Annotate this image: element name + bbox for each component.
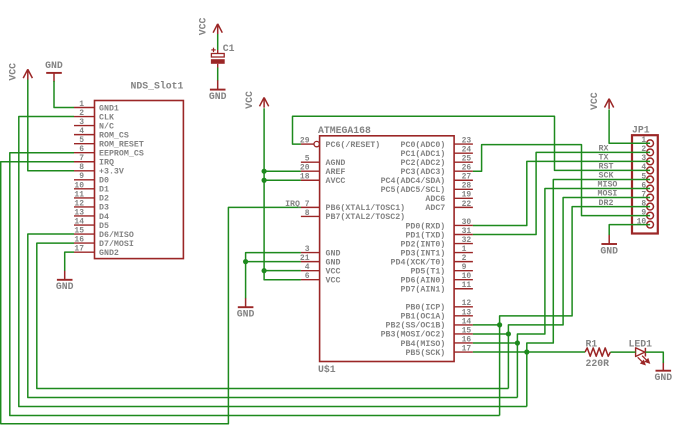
JP1 pin 3 pad bbox=[647, 158, 654, 165]
ATMEGA168 pin 21 GND bbox=[301, 261, 320, 263]
svg-text:PC5(ADC5/SCL): PC5(ADC5/SCL) bbox=[381, 185, 446, 195]
svg-text:12: 12 bbox=[462, 299, 472, 308]
svg-text:21: 21 bbox=[300, 254, 310, 263]
wire GND column to ATMEGA GND pins 3 21 bbox=[246, 253, 301, 299]
ATMEGA168 pin 18 AVCC bbox=[301, 179, 320, 181]
svg-text:11: 11 bbox=[74, 190, 84, 199]
NDS_Slot1 pin 8 +3.3V bbox=[74, 170, 95, 172]
svg-text:SCK: SCK bbox=[599, 172, 614, 181]
ground GND (below JP1) bbox=[608, 235, 610, 244]
junction at VCC pin 4 bbox=[262, 268, 267, 273]
svg-text:30: 30 bbox=[462, 218, 472, 227]
JP1 pin 7 pad bbox=[647, 194, 654, 201]
ground GND (below ATMEGA168 left) bbox=[245, 298, 247, 307]
svg-text:PD0(RXD): PD0(RXD) bbox=[405, 221, 445, 231]
svg-text:2: 2 bbox=[79, 109, 84, 118]
svg-text:27: 27 bbox=[462, 173, 472, 182]
svg-text:5: 5 bbox=[79, 136, 84, 145]
svg-text:EEPROM_CS: EEPROM_CS bbox=[99, 150, 144, 159]
svg-text:PB3(MOSI/OC2): PB3(MOSI/OC2) bbox=[381, 330, 446, 340]
svg-text:16: 16 bbox=[462, 335, 472, 344]
wire VCC column to ATMEGA VCC pins 4 6 bbox=[264, 108, 301, 280]
NDS_Slot1 pin 5 ROM_RESET bbox=[74, 143, 95, 145]
supply VCC (above JP1) bbox=[608, 99, 610, 109]
ground GND (below LED1) bbox=[662, 361, 664, 370]
NDS_Slot1 pin 12 D3 bbox=[74, 206, 95, 208]
svg-text:PD4(XCK/T0): PD4(XCK/T0) bbox=[391, 257, 446, 267]
svg-text:AREF: AREF bbox=[326, 168, 346, 177]
ATMEGA168 pin 6 VCC bbox=[301, 279, 320, 281]
supply VCC (left) bbox=[27, 69, 29, 79]
svg-text:JP1: JP1 bbox=[632, 125, 650, 136]
svg-text:AVCC: AVCC bbox=[326, 177, 346, 186]
wire branch GND pin 21 bbox=[246, 261, 301, 263]
svg-text:5: 5 bbox=[305, 155, 310, 164]
ATMEGA168 pin 24 PC1(ADC1) bbox=[454, 152, 473, 154]
ATMEGA168 pin 7 PB6(XTAL1/TOSC1) bbox=[301, 206, 320, 208]
svg-text:14: 14 bbox=[74, 217, 84, 226]
svg-text:31: 31 bbox=[462, 227, 472, 236]
svg-text:18: 18 bbox=[300, 173, 310, 182]
svg-text:DR2: DR2 bbox=[599, 199, 614, 208]
ATMEGA168 pin 31 PD1(TXD) bbox=[454, 234, 473, 236]
ATMEGA168 pin 15 PB3(MOSI/OC2) bbox=[454, 333, 473, 335]
svg-text:MISO: MISO bbox=[598, 181, 618, 190]
junction at PB5 bbox=[524, 349, 529, 354]
svg-text:GND1: GND1 bbox=[99, 104, 119, 113]
wire net DR1: ATMEGA PC3/ADC3 to JP1 pin 9 bbox=[473, 145, 650, 216]
wire branch VCC pin 4 bbox=[264, 270, 301, 272]
svg-text:PB2(SS/OC1B): PB2(SS/OC1B) bbox=[386, 321, 446, 331]
svg-text:MOSI: MOSI bbox=[598, 190, 618, 199]
svg-text:C1: C1 bbox=[223, 43, 235, 54]
svg-text:32: 32 bbox=[462, 236, 472, 245]
svg-text:14: 14 bbox=[462, 317, 472, 326]
wire net MOSI: ATMEGA PB3 to JP1 pin 7 and D7 rail bbox=[473, 333, 509, 335]
ATMEGA168 pin 26 PC3(ADC3) bbox=[454, 170, 473, 172]
wire net MISO: ATMEGA PB4 to JP1 pin 6 and D6 rail bbox=[473, 342, 518, 344]
svg-text:9: 9 bbox=[462, 263, 467, 272]
svg-text:U$1: U$1 bbox=[318, 364, 336, 375]
svg-text:PD1(TXD): PD1(TXD) bbox=[405, 230, 445, 240]
ground GND (top left) bbox=[53, 73, 55, 82]
svg-text:13: 13 bbox=[462, 308, 472, 317]
NDS_Slot1 pin 13 D4 bbox=[74, 215, 95, 217]
svg-text:VCC: VCC bbox=[244, 91, 255, 109]
wire branch AREF pin 20 bbox=[264, 170, 301, 172]
wire net RX: ATMEGA PD1/TXD to JP1 pin 2 bbox=[473, 152, 650, 234]
junction at PB4 bbox=[515, 340, 520, 345]
NDS_Slot1 pin 15 D6/MISO bbox=[74, 233, 95, 235]
svg-text:PD6(AIN0): PD6(AIN0) bbox=[400, 276, 445, 286]
svg-text:8: 8 bbox=[305, 209, 310, 218]
ground GND (below NDS_Slot1) bbox=[64, 271, 66, 280]
ATMEGA168 pin 13 PB1(OC1A) bbox=[454, 315, 473, 317]
svg-text:7: 7 bbox=[79, 154, 84, 163]
ATMEGA168 pin 4 VCC bbox=[301, 270, 320, 272]
svg-text:ADC7: ADC7 bbox=[425, 204, 445, 213]
svg-text:15: 15 bbox=[74, 226, 84, 235]
svg-text:24: 24 bbox=[462, 146, 472, 155]
junction at GND pin 21 bbox=[243, 259, 248, 264]
svg-text:23: 23 bbox=[462, 137, 472, 146]
ATMEGA168 pin 28 PC5(ADC5/SCL) bbox=[454, 188, 473, 190]
svg-text:IRQ: IRQ bbox=[285, 200, 300, 209]
JP1 pin 2 pad bbox=[647, 149, 654, 156]
ATMEGA168 pin 1 PD3(INT1) bbox=[454, 252, 473, 254]
ATMEGA168 pin 25 PC2(ADC2) bbox=[454, 161, 473, 163]
svg-text:PB0(ICP): PB0(ICP) bbox=[405, 303, 445, 313]
junction at AVCC bbox=[262, 178, 267, 183]
svg-text:D7/MOSI: D7/MOSI bbox=[99, 239, 134, 249]
led LED1 bbox=[636, 348, 645, 357]
svg-text:VCC: VCC bbox=[197, 17, 208, 35]
svg-text:1: 1 bbox=[79, 100, 84, 109]
wire net EEPROM_CS: NDS pin 6 to ATMEGA PB2/SS rail bbox=[10, 153, 500, 416]
wire VCC to NDS pin 8 +3.3V bbox=[28, 80, 74, 171]
ground GND (below C1) bbox=[217, 80, 219, 89]
JP1 pin 6 pad bbox=[647, 185, 654, 192]
svg-text:8: 8 bbox=[79, 163, 84, 172]
NDS_Slot1 pin 17 GND2 bbox=[74, 251, 95, 253]
ATMEGA168 pin 11 PD7(AIN1) bbox=[454, 288, 473, 290]
ATMEGA168 pin 19 ADC6 bbox=[454, 197, 473, 199]
svg-text:GND: GND bbox=[326, 258, 341, 267]
svg-text:6: 6 bbox=[79, 145, 84, 154]
ATMEGA168 pin 17 PB5(SCK) bbox=[454, 351, 473, 353]
svg-text:26: 26 bbox=[462, 164, 472, 173]
wire net RST: ATMEGA PC6/RESET to JP1 pin 4 bbox=[293, 116, 651, 170]
resistor R1 bbox=[585, 348, 610, 356]
ATMEGA168 pin 32 PD2(INT0) bbox=[454, 243, 473, 245]
svg-text:PD3(INT1): PD3(INT1) bbox=[400, 248, 445, 258]
JP1 pin 4 pad bbox=[647, 167, 654, 174]
junction at PB3 bbox=[506, 331, 511, 336]
ATMEGA168 pin 30 PD0(RXD) bbox=[454, 224, 473, 226]
wire branch AVCC pin 18 bbox=[264, 179, 301, 181]
svg-text:GND: GND bbox=[237, 309, 255, 320]
svg-text:IRQ: IRQ bbox=[99, 159, 114, 168]
svg-text:11: 11 bbox=[462, 281, 472, 290]
svg-text:TX: TX bbox=[599, 154, 609, 163]
svg-text:D3: D3 bbox=[99, 204, 109, 213]
JP1 pin 1 pad bbox=[647, 140, 654, 147]
svg-text:GND: GND bbox=[45, 60, 63, 71]
svg-text:10: 10 bbox=[462, 272, 472, 281]
svg-text:D1: D1 bbox=[99, 186, 109, 195]
connector J2 NDS_Slot1 outline bbox=[95, 101, 184, 259]
svg-text:NDS_Slot1: NDS_Slot1 bbox=[130, 80, 183, 91]
JP1 pin 5 pad bbox=[647, 176, 654, 183]
wire VCC to JP1 pin 1 bbox=[609, 109, 650, 143]
svg-text:PB5(SCK): PB5(SCK) bbox=[405, 348, 445, 358]
junction at AREF bbox=[262, 169, 267, 174]
svg-text:220R: 220R bbox=[586, 358, 610, 369]
wire net CLK: NDS pin 2 to ATMEGA PB5/SCK rail bbox=[19, 117, 527, 407]
wire GND to NDS pin 1 bbox=[54, 81, 74, 108]
NDS_Slot1 pin 9 D0 bbox=[74, 179, 95, 181]
svg-text:D5: D5 bbox=[99, 222, 109, 231]
NDS_Slot1 pin 6 EEPROM_CS bbox=[74, 152, 95, 154]
wire C1 to GND bbox=[217, 68, 219, 81]
NDS_Slot1 pin 16 D7/MOSI bbox=[74, 242, 95, 244]
svg-text:CLK: CLK bbox=[99, 113, 114, 122]
wire net D6/MISO: NDS pin 15 to ATMEGA PB4 rail bbox=[28, 234, 518, 397]
svg-text:VCC: VCC bbox=[326, 267, 341, 276]
ATMEGA168 pin 10 PD6(AIN0) bbox=[454, 279, 473, 281]
JP1 pin 10 pad bbox=[647, 221, 654, 228]
svg-text:28: 28 bbox=[462, 182, 472, 191]
JP1 pin 8 pad bbox=[647, 203, 654, 210]
wire net TX: ATMEGA PD0/RXD to JP1 pin 3 bbox=[473, 161, 650, 225]
junction at PB2 bbox=[497, 322, 502, 327]
NDS_Slot1 pin 14 D5 bbox=[74, 224, 95, 226]
svg-text:PB4(MISO): PB4(MISO) bbox=[400, 339, 445, 349]
svg-text:3: 3 bbox=[79, 118, 84, 127]
svg-text:16: 16 bbox=[74, 236, 84, 245]
ATMEGA168 pin 14 PB2(SS/OC1B) bbox=[454, 324, 473, 326]
ic U$1 ATMEGA168 outline bbox=[320, 136, 455, 362]
svg-text:PB1(OC1A): PB1(OC1A) bbox=[400, 312, 445, 322]
svg-text:PB6(XTAL1/TOSC1): PB6(XTAL1/TOSC1) bbox=[326, 203, 406, 213]
svg-text:22: 22 bbox=[462, 200, 472, 209]
wire net IRQ: NDS pin 7 to ATMEGA PB6 bbox=[1, 162, 301, 424]
svg-text:ROM_RESET: ROM_RESET bbox=[99, 140, 144, 149]
svg-text:1: 1 bbox=[462, 245, 467, 254]
svg-text:6: 6 bbox=[305, 272, 310, 281]
svg-text:LED1: LED1 bbox=[629, 339, 653, 350]
svg-text:PC2(ADC2): PC2(ADC2) bbox=[400, 158, 445, 168]
ATMEGA168 pin 16 PB4(MISO) bbox=[454, 342, 473, 344]
wire JP1 pin 10 to ground bbox=[609, 225, 650, 235]
JP1 pin 9 pad bbox=[647, 212, 654, 219]
svg-text:19: 19 bbox=[462, 191, 472, 200]
NDS_Slot1 pin 10 D1 bbox=[74, 188, 95, 190]
svg-text:13: 13 bbox=[74, 208, 84, 217]
svg-text:D2: D2 bbox=[99, 195, 109, 204]
svg-text:15: 15 bbox=[462, 326, 472, 335]
svg-text:PC3(ADC3): PC3(ADC3) bbox=[400, 167, 445, 177]
svg-text:D0: D0 bbox=[99, 177, 109, 186]
svg-text:D4: D4 bbox=[99, 213, 109, 222]
svg-text:3: 3 bbox=[305, 245, 310, 254]
svg-text:12: 12 bbox=[74, 199, 84, 208]
ATMEGA168 pin 5 AGND bbox=[301, 161, 320, 163]
ATMEGA168 pin 27 PC4(ADC4/SDA) bbox=[454, 179, 473, 181]
svg-text:ROM_CS: ROM_CS bbox=[99, 131, 129, 140]
wire net SCK: ATMEGA PB5 to JP1 pin 5, CLK rail and R1 bbox=[473, 351, 585, 353]
svg-text:R1: R1 bbox=[586, 339, 598, 350]
wire net D7/MOSI: NDS pin 16 to ATMEGA PB3 rail bbox=[37, 243, 509, 388]
wire net SS: ATMEGA PB2 to JP1 pin 8 DR2 and EEPROM_CS rail bbox=[473, 324, 500, 326]
svg-text:GND: GND bbox=[654, 372, 672, 383]
svg-text:29: 29 bbox=[300, 137, 310, 146]
supply VCC (above C1) bbox=[217, 24, 219, 34]
svg-text:17: 17 bbox=[74, 245, 84, 254]
svg-text:GND: GND bbox=[56, 281, 74, 292]
wire LED1 to ground bbox=[645, 352, 663, 363]
connector JP1 outline bbox=[632, 135, 658, 233]
svg-text:GND: GND bbox=[209, 91, 227, 102]
svg-text:GND2: GND2 bbox=[99, 249, 119, 258]
ATMEGA168 pin 2 PD4(XCK/T0) bbox=[454, 261, 473, 263]
svg-text:25: 25 bbox=[462, 155, 472, 164]
svg-text:PD2(INT0): PD2(INT0) bbox=[400, 239, 445, 249]
ATMEGA168 pin 9 PD5(T1) bbox=[454, 270, 473, 272]
svg-text:+3.3V: +3.3V bbox=[99, 168, 124, 177]
svg-text:VCC: VCC bbox=[326, 277, 341, 286]
svg-text:N/C: N/C bbox=[99, 121, 114, 131]
wire R1 to LED1 bbox=[610, 351, 635, 353]
ATMEGA168 pin 3 GND bbox=[301, 252, 320, 254]
svg-text:10: 10 bbox=[74, 181, 84, 190]
NDS_Slot1 pin 2 CLK bbox=[74, 116, 95, 118]
svg-text:PC4(ADC4/SDA): PC4(ADC4/SDA) bbox=[381, 176, 446, 186]
svg-text:VCC: VCC bbox=[8, 63, 19, 81]
ATMEGA168 pin 22 ADC7 bbox=[454, 206, 473, 208]
ATMEGA168 pin 23 PC0(ADC0) bbox=[454, 143, 473, 145]
NDS_Slot1 pin 3 N/C bbox=[74, 125, 95, 127]
svg-text:2: 2 bbox=[462, 254, 467, 263]
wire NDS pin 17 GND2 to ground bbox=[65, 252, 74, 271]
svg-text:4: 4 bbox=[305, 263, 310, 272]
svg-text:VCC: VCC bbox=[589, 92, 600, 110]
svg-text:9: 9 bbox=[79, 172, 84, 181]
NDS_Slot1 pin 1 GND1 bbox=[74, 107, 95, 109]
svg-text:20: 20 bbox=[300, 164, 310, 173]
svg-text:AGND: AGND bbox=[326, 159, 346, 168]
ATMEGA168 pin 29 PC6(/RESET) bbox=[301, 143, 314, 145]
svg-text:7: 7 bbox=[305, 200, 310, 209]
supply VCC (above ATMEGA168) bbox=[263, 98, 265, 108]
svg-text:PC0(ADC0): PC0(ADC0) bbox=[400, 140, 445, 150]
ATMEGA168 pin 12 PB0(ICP) bbox=[454, 306, 473, 308]
capacitor C1 polarized bbox=[211, 54, 224, 58]
svg-text:ADC6: ADC6 bbox=[425, 195, 445, 204]
svg-text:D6/MISO: D6/MISO bbox=[99, 230, 134, 240]
ATMEGA168 pin 20 AREF bbox=[301, 170, 320, 172]
svg-text:PB7(XTAL2/TOSC2): PB7(XTAL2/TOSC2) bbox=[326, 212, 406, 222]
svg-text:GND: GND bbox=[600, 245, 618, 256]
ATMEGA168 pin 8 PB7(XTAL2/TOSC2) bbox=[301, 215, 320, 217]
svg-text:4: 4 bbox=[79, 127, 84, 136]
svg-text:ATMEGA168: ATMEGA168 bbox=[318, 125, 371, 136]
NDS_Slot1 pin 4 ROM_CS bbox=[74, 134, 95, 136]
NDS_Slot1 pin 7 IRQ bbox=[74, 161, 95, 163]
NDS_Slot1 pin 11 D2 bbox=[74, 197, 95, 199]
wire VCC to C1 bbox=[217, 34, 219, 50]
svg-text:PD7(AIN1): PD7(AIN1) bbox=[400, 285, 445, 295]
svg-text:GND: GND bbox=[326, 249, 341, 258]
svg-text:PD5(T1): PD5(T1) bbox=[410, 266, 445, 276]
svg-text:RX: RX bbox=[599, 145, 609, 154]
svg-text:PC1(ADC1): PC1(ADC1) bbox=[400, 149, 445, 159]
svg-text:PC6(/RESET): PC6(/RESET) bbox=[326, 140, 381, 150]
svg-text:RST: RST bbox=[599, 163, 614, 172]
svg-text:17: 17 bbox=[462, 344, 472, 353]
